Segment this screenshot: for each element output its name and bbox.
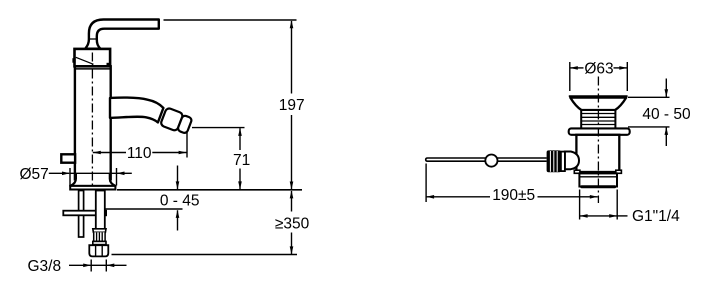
svg-text:Ø63: Ø63 — [584, 60, 613, 77]
lever housing — [565, 152, 579, 170]
hose nut G3/8 — [89, 245, 108, 256]
dimension 71 — [239, 128, 241, 189]
body bottom flare feet — [574, 170, 580, 173]
dimension 0 - 45 — [106, 166, 183, 231]
mounting surface line — [117, 189, 302, 191]
thread section — [579, 173, 617, 186]
svg-text:71: 71 — [233, 152, 250, 169]
pop-up rod — [428, 158, 547, 161]
svg-text:197: 197 — [279, 97, 305, 114]
dimension 197 extension line from handle — [164, 19, 297, 21]
braided hose upper band — [93, 229, 106, 233]
handle lever with base skirt — [85, 20, 159, 49]
spout — [110, 98, 163, 123]
dimension 40 - 50 — [628, 79, 670, 147]
washer flange — [569, 128, 630, 134]
faucet body cylinder — [75, 66, 111, 179]
clamp plate — [63, 211, 106, 216]
svg-text:Ø57: Ø57 — [20, 166, 49, 183]
collar — [561, 152, 565, 172]
aerator tip — [160, 107, 193, 135]
cap on body — [72, 49, 110, 67]
drain funnel rim — [569, 95, 628, 99]
funnel cone — [570, 98, 626, 110]
rod ball — [485, 155, 497, 167]
dimension 71 extension line from aerator — [192, 127, 245, 129]
supply nipple on body left — [61, 154, 75, 162]
svg-text:G1"1/4: G1"1/4 — [632, 208, 680, 225]
centre line of drain — [597, 77, 599, 204]
base flange — [70, 174, 115, 186]
svg-text:40 - 50: 40 - 50 — [642, 106, 691, 123]
funnel neck with rings — [581, 110, 615, 129]
svg-text:110: 110 — [127, 145, 152, 162]
dimension 197 — [291, 21, 293, 189]
drain body — [576, 135, 619, 172]
handle collar seam — [89, 38, 97, 40]
braided hose ribs — [94, 232, 105, 241]
svg-text:G3/8: G3/8 — [28, 258, 62, 275]
thread bottom band — [580, 185, 616, 188]
dimension G1"1/4 — [580, 190, 628, 220]
centre line of faucet — [91, 53, 93, 186]
dimension 190+-5 — [426, 164, 598, 203]
svg-text:190±5: 190±5 — [492, 187, 535, 204]
dimension >=350 — [112, 191, 298, 255]
supply pipe — [96, 191, 105, 230]
svg-text:0 - 45: 0 - 45 — [160, 193, 200, 210]
dimension 110 — [93, 131, 187, 158]
knurled knob — [547, 150, 561, 172]
threaded stud below body — [79, 191, 84, 238]
svg-text:≥350: ≥350 — [275, 216, 310, 233]
